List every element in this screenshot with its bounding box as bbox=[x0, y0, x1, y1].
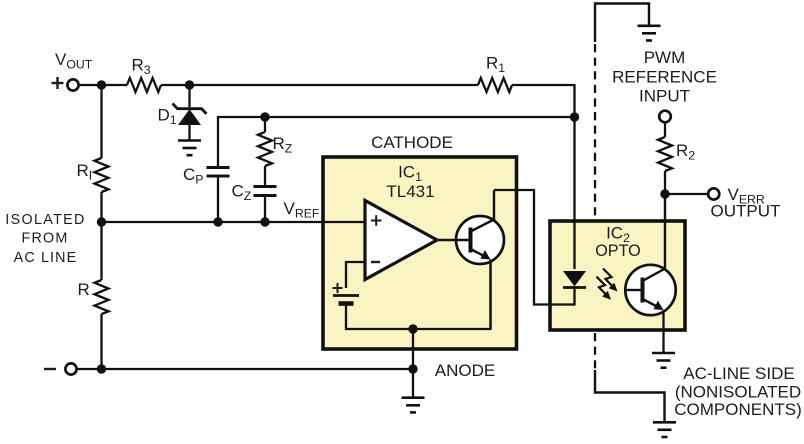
svg-text:OPTO: OPTO bbox=[595, 242, 641, 260]
resistor R2 bbox=[658, 137, 672, 171]
phototransistor collector bbox=[643, 194, 666, 281]
svg-text:R: R bbox=[78, 280, 90, 299]
wire bottom rail bbox=[78, 368, 414, 370]
node junction CP bottom bbox=[213, 217, 222, 226]
wire PWM to R2 bbox=[664, 123, 666, 138]
svg-text:OUTPUT: OUTPUT bbox=[711, 202, 781, 221]
ground top right bbox=[638, 26, 661, 41]
phototransistor Q2 circle bbox=[625, 265, 675, 315]
svg-text:ISOLATED: ISOLATED bbox=[5, 212, 85, 228]
terminal + Vout bbox=[67, 79, 78, 90]
isolation dashed line lower bbox=[594, 333, 596, 371]
resistor RZ bbox=[258, 117, 272, 186]
op-amp U1 triangle bbox=[365, 201, 437, 280]
light arrow 2 bbox=[597, 277, 612, 300]
phototransistor base bar bbox=[641, 278, 645, 303]
ground bottom right bbox=[653, 422, 676, 437]
svg-text:REFERENCE: REFERENCE bbox=[612, 68, 717, 87]
transistor Q1 collector bbox=[471, 190, 495, 232]
battery plus sign bbox=[333, 283, 343, 293]
light arrow 1 bbox=[603, 269, 618, 292]
capacitor CP bbox=[207, 168, 230, 223]
emitter arrowhead Q2 bbox=[654, 301, 664, 310]
wire bottom right shield bbox=[595, 370, 665, 422]
wire R3 to R1 bbox=[161, 84, 478, 86]
node junction RZ top bbox=[260, 112, 269, 121]
wire emitter down bbox=[489, 260, 491, 330]
wire inverting input to battery bbox=[346, 262, 365, 288]
svg-text:AC LINE: AC LINE bbox=[14, 250, 78, 266]
svg-text:ANODE: ANODE bbox=[435, 361, 495, 380]
transistor Q1 base bar bbox=[469, 228, 473, 253]
node junction CZ bottom bbox=[260, 217, 269, 226]
terminal - bottom bbox=[65, 363, 76, 374]
svg-text:PWM: PWM bbox=[644, 48, 686, 67]
node junction R3-D1 bbox=[185, 80, 194, 89]
capacitor CZ bbox=[254, 187, 277, 223]
svg-text:INPUT: INPUT bbox=[639, 87, 690, 106]
ground opto emitter bbox=[652, 353, 675, 368]
node junction anode rail bbox=[408, 324, 417, 333]
node junction anode-bottom rail bbox=[408, 364, 417, 373]
node junction bottom left bbox=[97, 364, 106, 373]
resistor R bbox=[95, 280, 109, 314]
svg-text:TL431: TL431 bbox=[386, 182, 434, 201]
wire R2 to node bbox=[664, 171, 666, 194]
IC2 opto box bbox=[550, 221, 685, 330]
isolation dashed line upper bbox=[594, 44, 596, 219]
ground anode bbox=[402, 398, 425, 413]
node junction Vout-RI bbox=[97, 80, 106, 89]
resistor R3 bbox=[127, 78, 161, 92]
terminal PWM input bbox=[659, 111, 671, 123]
transistor Q1 emitter bbox=[471, 249, 487, 257]
battery reference bbox=[333, 296, 359, 304]
wire compensation rail y117 bbox=[218, 117, 575, 167]
wire R to bottom rail bbox=[100, 314, 102, 369]
wire R1 to LED anode bbox=[512, 85, 575, 269]
resistor R1 bbox=[478, 78, 512, 92]
ground below D1 bbox=[178, 141, 201, 156]
svg-text:AC-LINE SIDE: AC-LINE SIDE bbox=[683, 364, 794, 383]
transistor Q1 circle bbox=[456, 216, 504, 264]
node junction Verr bbox=[660, 189, 669, 198]
svg-text:FROM: FROM bbox=[22, 230, 69, 246]
wire anode down to ground bbox=[412, 329, 414, 397]
resistor RI bbox=[95, 158, 109, 192]
phototransistor emitter bbox=[643, 299, 659, 307]
emitter arrowhead Q1 bbox=[481, 250, 491, 259]
op-amp plus input sign bbox=[371, 215, 382, 226]
op-amp minus input sign bbox=[371, 261, 380, 263]
wire op-amp output to base bbox=[437, 239, 469, 241]
wire cathode to LED bbox=[494, 190, 575, 305]
LED of opto bbox=[563, 272, 586, 288]
minus sign bbox=[44, 368, 56, 370]
terminal Verr output bbox=[708, 188, 719, 199]
wire RI to tap bbox=[100, 192, 102, 280]
wire emitter to ground bbox=[662, 310, 664, 352]
phototransistor base stub bbox=[626, 289, 641, 291]
wire D1 branch bbox=[188, 85, 190, 107]
zener diode D1 bbox=[173, 104, 207, 140]
svg-text:(NONISOLATED: (NONISOLATED bbox=[675, 383, 801, 402]
svg-text:CATHODE: CATHODE bbox=[371, 133, 453, 152]
node junction divider tap bbox=[97, 217, 106, 226]
wire top rail Vout bbox=[80, 84, 128, 86]
wire node to Verr terminal bbox=[665, 193, 708, 195]
svg-text:COMPONENTS): COMPONENTS) bbox=[674, 400, 802, 419]
wire internal anode rail bbox=[346, 258, 491, 329]
wire Vref rail bbox=[102, 221, 365, 223]
plus sign bbox=[52, 77, 64, 89]
wire top right shield bbox=[595, 4, 649, 43]
wire left rail bbox=[100, 85, 102, 158]
IC1 box bbox=[323, 157, 517, 349]
node junction R1-LED bbox=[570, 112, 579, 121]
